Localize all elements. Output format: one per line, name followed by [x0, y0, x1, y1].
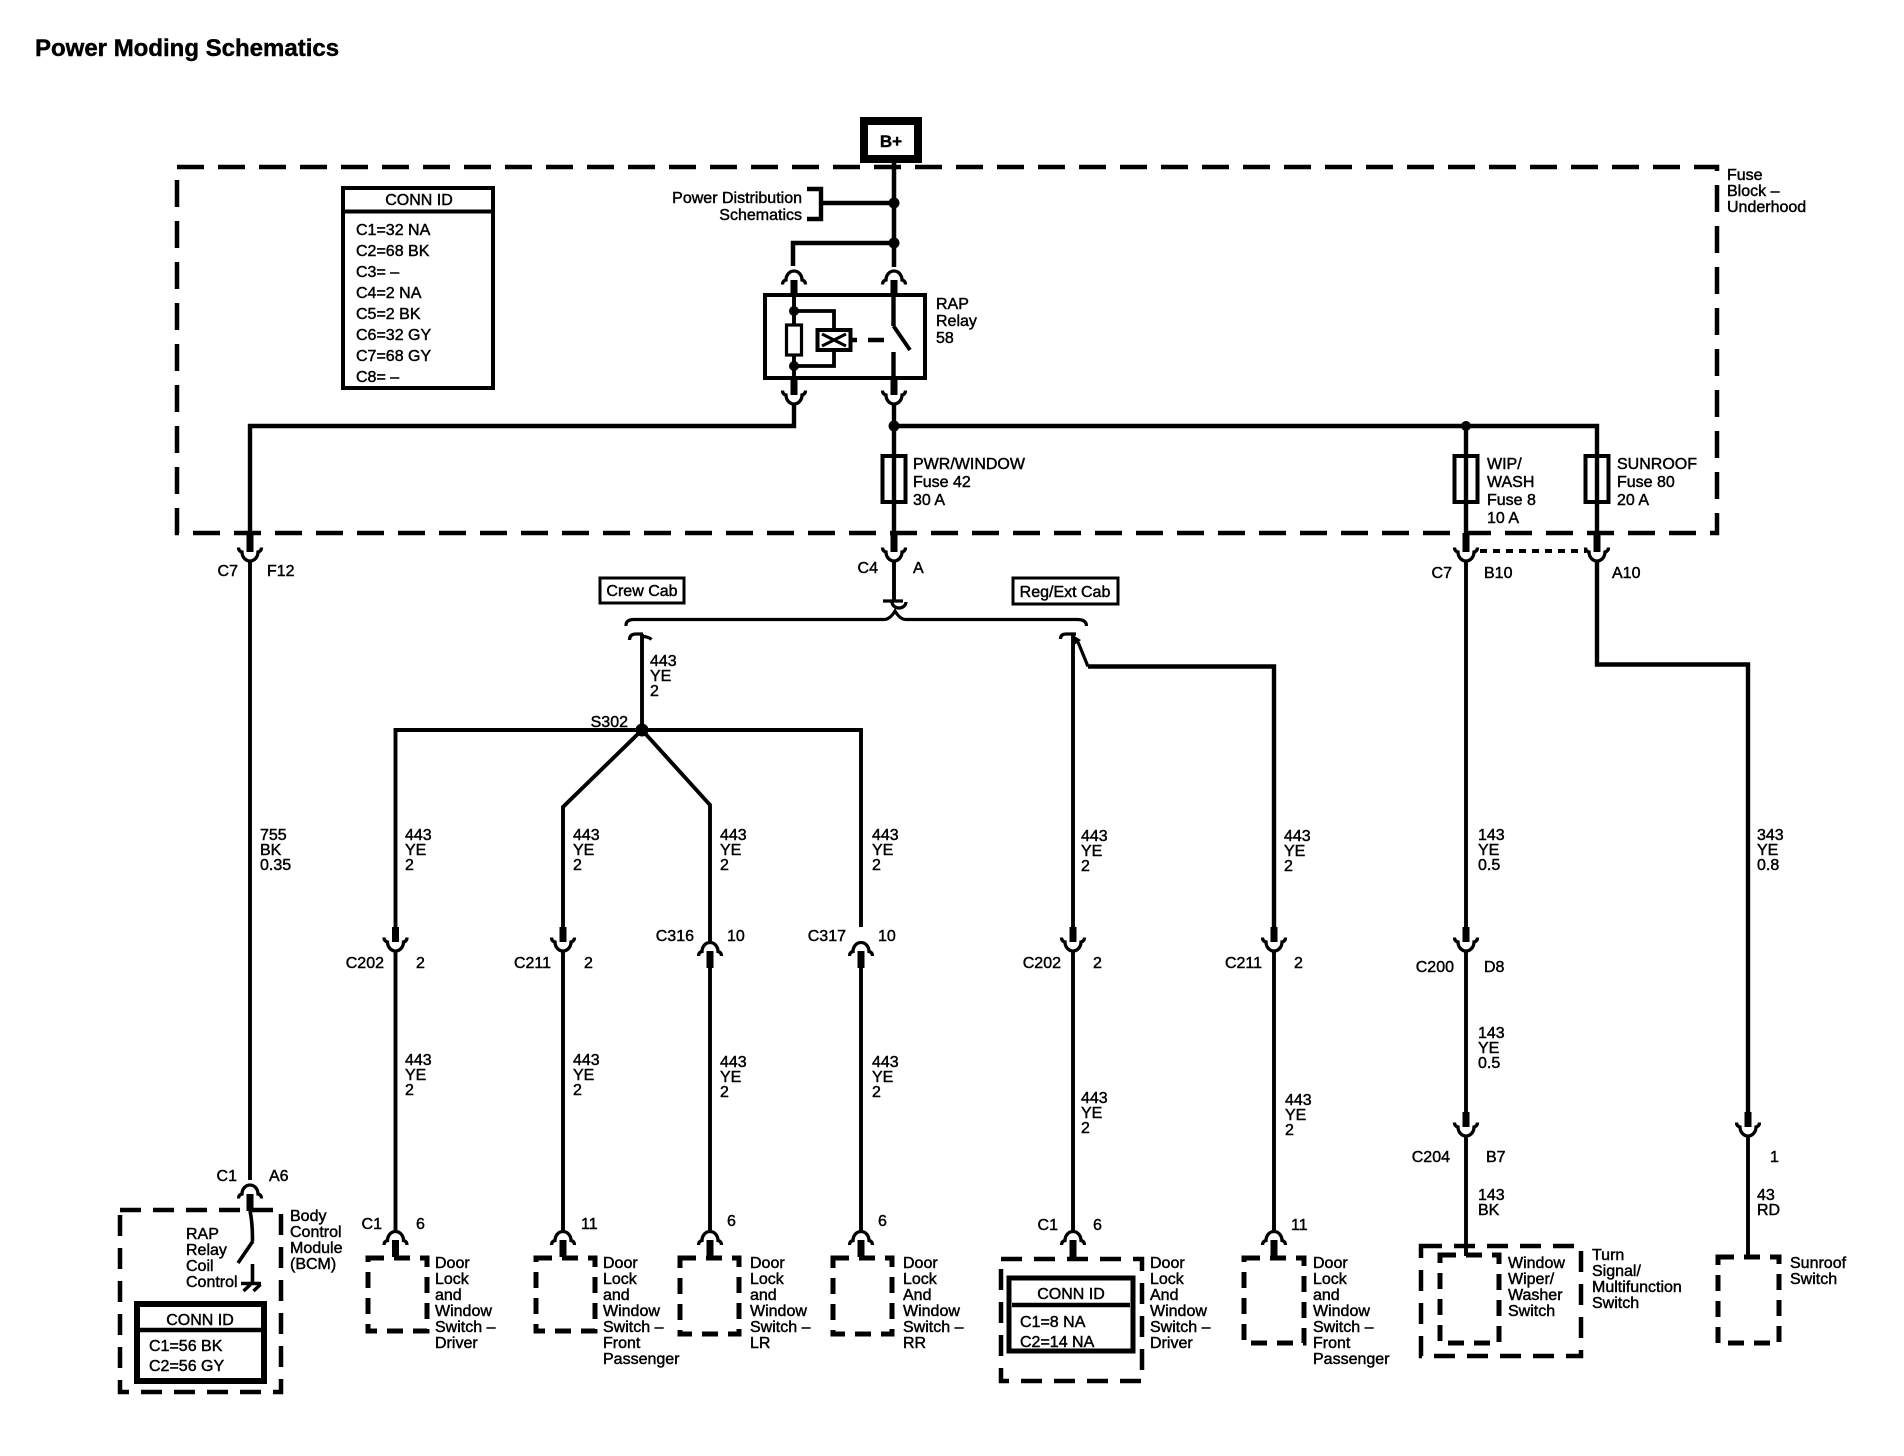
connector C317 — [808, 928, 896, 968]
RAP relay label — [936, 296, 977, 347]
svg-text:C316: C316 — [656, 928, 694, 945]
svg-text:2: 2 — [650, 683, 659, 700]
svg-text:C5=2 BK: C5=2 BK — [356, 306, 421, 323]
door lock window switch front passenger label — [603, 1255, 680, 1368]
svg-text:Window: Window — [1313, 1303, 1370, 1320]
RAP relay coil control driver — [238, 1211, 261, 1291]
connector C316 — [656, 928, 745, 968]
connector C7 B10 — [1432, 533, 1513, 582]
svg-text:2: 2 — [872, 1084, 881, 1101]
connector C211 reg — [1225, 927, 1303, 972]
svg-text:0.35: 0.35 — [260, 857, 291, 874]
svg-text:WASH: WASH — [1487, 474, 1534, 491]
svg-text:2: 2 — [584, 955, 593, 972]
RAP relay box — [765, 295, 925, 378]
svg-text:2: 2 — [573, 1082, 582, 1099]
svg-text:6: 6 — [1093, 1217, 1102, 1234]
door lock window switch driver label — [435, 1255, 496, 1352]
svg-text:Washer: Washer — [1508, 1287, 1563, 1304]
svg-text:(BCM): (BCM) — [290, 1256, 336, 1273]
junction node — [889, 198, 900, 209]
svg-text:Switch: Switch — [1508, 1303, 1555, 1320]
fuse block underhood dashed box — [177, 167, 1717, 533]
svg-text:PWR/WINDOW: PWR/WINDOW — [913, 456, 1026, 473]
svg-text:2: 2 — [1284, 858, 1293, 875]
svg-text:C1=32 NA: C1=32 NA — [356, 222, 431, 239]
svg-text:0.5: 0.5 — [1478, 1055, 1500, 1072]
svg-text:C4=2 NA: C4=2 NA — [356, 285, 422, 302]
sunroof switch box — [1718, 1257, 1779, 1343]
svg-text:C7=68 GY: C7=68 GY — [356, 348, 431, 365]
wire label 443 YE 2 b3 — [720, 827, 747, 874]
svg-text:Front: Front — [1313, 1335, 1351, 1352]
connector C1 A6 — [217, 1168, 289, 1211]
svg-text:RD: RD — [1757, 1202, 1780, 1219]
svg-text:C2=68 BK: C2=68 BK — [356, 243, 430, 260]
wire bracket to main — [821, 201, 894, 206]
body control module dashed box — [120, 1210, 281, 1392]
svg-text:A10: A10 — [1612, 565, 1641, 582]
svg-text:Coil: Coil — [186, 1258, 214, 1275]
svg-text:Switch –: Switch – — [750, 1319, 811, 1336]
svg-text:Window: Window — [435, 1303, 492, 1320]
svg-text:Window: Window — [1150, 1303, 1207, 1320]
wire label 443 YE 2 b2 — [573, 827, 600, 874]
svg-text:Body: Body — [290, 1208, 326, 1225]
svg-text:CONN ID: CONN ID — [166, 1312, 234, 1329]
wire to relay coil branch — [793, 243, 894, 266]
BCM CONN ID table — [137, 1304, 264, 1381]
turn signal multifunction switch label — [1592, 1247, 1682, 1312]
svg-text:10: 10 — [878, 928, 896, 945]
relay coil wire — [792, 295, 796, 325]
wire label 443 YE 2 c4 — [872, 1054, 899, 1101]
door lock window switch reg driver label — [1150, 1255, 1211, 1352]
connector C1 6 reg driver — [1038, 1217, 1102, 1257]
svg-text:Signal/: Signal/ — [1592, 1263, 1641, 1280]
sunroof switch label — [1790, 1255, 1847, 1288]
wire S302 to C316 branch — [642, 730, 710, 941]
door lock window switch LR label — [750, 1255, 811, 1352]
Reg/Ext Cab label — [1013, 578, 1118, 604]
relay RAP connector pin top right — [883, 271, 906, 296]
svg-text:C6=32 GY: C6=32 GY — [356, 327, 431, 344]
svg-text:C202: C202 — [1023, 955, 1061, 972]
connector 11 crew fp — [552, 1216, 598, 1257]
svg-text:2: 2 — [405, 1082, 414, 1099]
svg-text:Driver: Driver — [435, 1335, 478, 1352]
svg-text:C1=8 NA: C1=8 NA — [1020, 1314, 1086, 1331]
svg-text:Window: Window — [603, 1303, 660, 1320]
svg-text:WIP/: WIP/ — [1487, 456, 1522, 473]
wire C204 down — [1464, 1135, 1468, 1256]
wire label 143 YE 0.5 top — [1478, 827, 1505, 874]
svg-text:Fuse 42: Fuse 42 — [913, 474, 971, 491]
door lock window switch LR box — [680, 1258, 739, 1334]
wire S302 to C202 branch — [396, 730, 643, 927]
svg-text:C1: C1 — [362, 1216, 383, 1233]
svg-text:Fuse 80: Fuse 80 — [1617, 474, 1675, 491]
svg-text:2: 2 — [720, 857, 729, 874]
svg-text:2: 2 — [1294, 955, 1303, 972]
wire label 443 YE 2 b4 — [872, 827, 899, 874]
connector C202 crew — [346, 927, 425, 972]
wire B10 down — [1464, 561, 1468, 927]
PWR/WINDOW label — [913, 456, 1026, 509]
connector 1 sunroof — [1737, 1112, 1780, 1166]
svg-text:And: And — [903, 1287, 931, 1304]
svg-text:2: 2 — [416, 955, 425, 972]
connector 11 reg fp — [1263, 1217, 1308, 1257]
svg-text:Window: Window — [1508, 1255, 1565, 1272]
relay switch — [894, 295, 911, 378]
svg-text:10: 10 — [727, 928, 745, 945]
svg-text:A6: A6 — [269, 1168, 289, 1185]
svg-text:and: and — [750, 1287, 777, 1304]
svg-text:Power Moding Schematics: Power Moding Schematics — [35, 35, 339, 62]
svg-text:C8= –: C8= – — [356, 369, 399, 386]
door lock window switch driver box — [368, 1258, 427, 1331]
svg-text:Multifunction: Multifunction — [1592, 1279, 1682, 1296]
svg-text:Passenger: Passenger — [603, 1351, 680, 1368]
wire C202 reg down — [1071, 950, 1075, 1230]
svg-text:BK: BK — [1478, 1202, 1500, 1219]
svg-text:C1: C1 — [1038, 1217, 1059, 1234]
svg-text:Sunroof: Sunroof — [1790, 1255, 1847, 1272]
solid state coil element — [818, 330, 851, 350]
svg-text:Door: Door — [1150, 1255, 1185, 1272]
door lock window switch RR box — [833, 1258, 892, 1334]
svg-text:Door: Door — [1313, 1255, 1348, 1272]
svg-text:B10: B10 — [1484, 565, 1513, 582]
connector 6 crew lr — [699, 1213, 737, 1257]
svg-text:and: and — [435, 1287, 462, 1304]
svg-text:0.5: 0.5 — [1478, 857, 1500, 874]
svg-text:C317: C317 — [808, 928, 846, 945]
svg-text:and: and — [603, 1287, 630, 1304]
svg-text:A: A — [913, 560, 924, 577]
svg-text:Wiper/: Wiper/ — [1508, 1271, 1555, 1288]
wire label 143 YE 0.5 lower — [1478, 1025, 1505, 1072]
wire label 443 YE 2 r2 — [1284, 828, 1311, 875]
svg-text:Control: Control — [186, 1274, 238, 1291]
wire label 443 YE 2 crew feed — [650, 653, 677, 700]
Crew Cab label — [600, 578, 684, 603]
connector C1 6 crew driver — [362, 1216, 425, 1257]
window wiper washer switch box — [1440, 1255, 1499, 1343]
wire label 43 RD — [1757, 1187, 1780, 1219]
svg-text:C200: C200 — [1416, 959, 1454, 976]
door lock window switch reg fp box — [1244, 1258, 1304, 1343]
svg-text:B7: B7 — [1486, 1149, 1506, 1166]
crew cab branch hook — [630, 634, 652, 640]
svg-text:RAP: RAP — [186, 1226, 219, 1243]
fuse block label — [1727, 167, 1806, 216]
junction node — [889, 238, 900, 249]
connector 6 crew rr — [850, 1213, 888, 1257]
svg-text:C1=56 BK: C1=56 BK — [149, 1338, 223, 1355]
svg-text:6: 6 — [878, 1213, 887, 1230]
svg-text:Lock: Lock — [903, 1271, 938, 1288]
connector C202 reg — [1023, 927, 1102, 972]
svg-text:C211: C211 — [514, 955, 551, 972]
svg-text:RAP: RAP — [936, 296, 969, 313]
wire C316 down — [708, 968, 712, 1230]
svg-text:RR: RR — [903, 1335, 926, 1352]
door lock window switch reg fp label — [1313, 1255, 1390, 1368]
wire label 443 YE 2 c3 — [720, 1054, 747, 1101]
svg-text:Crew Cab: Crew Cab — [606, 583, 677, 600]
svg-text:C2=14 NA: C2=14 NA — [1020, 1334, 1095, 1351]
svg-text:30 A: 30 A — [913, 492, 945, 509]
svg-text:20 A: 20 A — [1617, 492, 1649, 509]
relay coil resistor — [787, 325, 802, 355]
wire C211 down — [561, 950, 565, 1230]
svg-text:CONN ID: CONN ID — [385, 192, 453, 209]
connector C211 crew — [514, 927, 593, 972]
svg-text:Reg/Ext Cab: Reg/Ext Cab — [1020, 584, 1111, 601]
wire label 443 YE 2 b1 — [405, 827, 432, 874]
junction node coil bottom — [789, 361, 799, 371]
wire relay left to F12 — [250, 403, 794, 533]
svg-text:2: 2 — [1285, 1122, 1294, 1139]
svg-text:Passenger: Passenger — [1313, 1351, 1390, 1368]
svg-text:Driver: Driver — [1150, 1335, 1193, 1352]
svg-text:C204: C204 — [1412, 1149, 1450, 1166]
svg-text:2: 2 — [1081, 1120, 1090, 1137]
wire label 143 BK — [1478, 1187, 1505, 1219]
svg-text:1: 1 — [1770, 1149, 1779, 1166]
Power Distribution Schematics reference — [672, 189, 821, 224]
svg-text:6: 6 — [727, 1213, 736, 1230]
branch arrow diagonal — [1071, 634, 1089, 667]
svg-text:Switch –: Switch – — [903, 1319, 964, 1336]
svg-text:Door: Door — [603, 1255, 638, 1272]
wire S302 to C317 branch — [642, 730, 861, 927]
svg-text:Underhood: Underhood — [1727, 199, 1806, 216]
svg-text:Lock: Lock — [435, 1271, 470, 1288]
svg-text:B+: B+ — [880, 132, 902, 151]
svg-text:Door: Door — [903, 1255, 938, 1272]
wire label 443 YE 2 c2 — [573, 1052, 600, 1099]
svg-text:2: 2 — [720, 1084, 729, 1101]
connector C204 B7 — [1412, 1112, 1506, 1166]
window wiper washer switch label — [1508, 1255, 1565, 1320]
svg-text:Window: Window — [903, 1303, 960, 1320]
svg-text:C202: C202 — [346, 955, 384, 972]
junction node coil top — [789, 306, 799, 316]
svg-text:Lock: Lock — [1150, 1271, 1185, 1288]
wire wip fuse drop — [1464, 426, 1468, 456]
wire C200 down — [1464, 950, 1468, 1112]
svg-text:Fuse 8: Fuse 8 — [1487, 492, 1536, 509]
svg-text:LR: LR — [750, 1335, 770, 1352]
svg-text:11: 11 — [581, 1216, 598, 1233]
svg-text:Lock: Lock — [750, 1271, 785, 1288]
svg-text:10 A: 10 A — [1487, 510, 1519, 527]
connector C7 F12 — [218, 533, 295, 580]
svg-text:Relay: Relay — [936, 313, 977, 330]
relay coil wire bottom — [792, 355, 796, 378]
CONN ID table (fuse block) — [343, 188, 493, 388]
wire label 343 YE 0.8 — [1757, 827, 1784, 874]
SUNROOF fuse 80 — [1586, 456, 1609, 533]
svg-text:Switch: Switch — [1592, 1295, 1639, 1312]
junction node bus — [889, 421, 900, 432]
svg-text:SUNROOF: SUNROOF — [1617, 456, 1697, 473]
split male half symbol — [883, 601, 906, 608]
svg-text:2: 2 — [573, 857, 582, 874]
relay pin bottom left — [783, 378, 806, 404]
svg-text:and: and — [1313, 1287, 1340, 1304]
svg-text:Lock: Lock — [1313, 1271, 1348, 1288]
wire C202 down — [394, 950, 398, 1230]
wire label 755 BK 0.35 — [260, 827, 291, 874]
wire label 443 YE 2 r3 — [1081, 1090, 1108, 1137]
relay pin bottom right — [883, 378, 906, 404]
svg-text:And: And — [1150, 1287, 1178, 1304]
connector C200 D8 — [1416, 927, 1505, 976]
PWR/WINDOW fuse 42 — [883, 456, 906, 533]
connector A10 — [1586, 533, 1641, 582]
svg-text:Window: Window — [750, 1303, 807, 1320]
door lock window switch reg driver box — [1001, 1259, 1142, 1381]
svg-text:58: 58 — [936, 330, 954, 347]
svg-text:0.8: 0.8 — [1757, 857, 1779, 874]
svg-text:2: 2 — [1093, 955, 1102, 972]
wire C317 down — [859, 968, 863, 1230]
wire label 443 YE 2 r4 — [1285, 1092, 1312, 1139]
relay RAP connector pin top left — [783, 271, 806, 296]
wire C4 to split — [892, 561, 896, 600]
coil to switch dashed link — [850, 338, 884, 343]
svg-text:D8: D8 — [1484, 959, 1505, 976]
svg-text:C1: C1 — [217, 1168, 238, 1185]
svg-text:Switch –: Switch – — [603, 1319, 664, 1336]
svg-text:CONN ID: CONN ID — [1037, 1286, 1105, 1303]
wire sunroof down — [1746, 1135, 1750, 1257]
wire to C211 reg — [1088, 667, 1274, 928]
wire B+ down to relay — [892, 160, 897, 267]
BCM label — [290, 1208, 343, 1273]
B+ terminal — [864, 121, 918, 159]
svg-text:C211: C211 — [1225, 955, 1262, 972]
svg-text:Relay: Relay — [186, 1242, 227, 1259]
wire C211 reg down — [1272, 950, 1276, 1230]
svg-text:Door: Door — [435, 1255, 470, 1272]
reg/ext branch hook — [1061, 634, 1077, 639]
wire S302 to C211 branch — [563, 730, 642, 927]
svg-text:6: 6 — [416, 1216, 425, 1233]
svg-text:C7: C7 — [1432, 565, 1453, 582]
SUNROOF label — [1617, 456, 1697, 509]
svg-text:Switch: Switch — [1790, 1271, 1837, 1288]
wire label 443 YE 2 c1 — [405, 1052, 432, 1099]
wire hook to C202 reg — [1071, 635, 1075, 927]
svg-text:Door: Door — [750, 1255, 785, 1272]
svg-text:C4: C4 — [858, 560, 879, 577]
reg driver CONN ID table — [1009, 1278, 1133, 1351]
dotted link B10 A10 — [1480, 549, 1586, 553]
door lock window switch front passenger box — [536, 1258, 595, 1331]
svg-text:C2=56 GY: C2=56 GY — [149, 1358, 224, 1375]
junction node wip — [1461, 421, 1471, 431]
door lock window switch RR label — [903, 1255, 964, 1352]
svg-text:2: 2 — [1081, 858, 1090, 875]
svg-text:Switch –: Switch – — [435, 1319, 496, 1336]
svg-text:Module: Module — [290, 1240, 343, 1257]
svg-text:2: 2 — [405, 857, 414, 874]
svg-text:Fuse: Fuse — [1727, 167, 1763, 184]
WIP/WASH label — [1487, 456, 1536, 527]
wire A10 to sunroof — [1597, 561, 1748, 1112]
wire F12 to BCM — [248, 561, 252, 1180]
wire label 443 YE 2 r1 — [1081, 828, 1108, 875]
svg-text:Front: Front — [603, 1335, 641, 1352]
svg-text:C7: C7 — [218, 563, 239, 580]
svg-text:Schematics: Schematics — [719, 207, 802, 224]
turn signal multifunction switch box — [1421, 1246, 1581, 1356]
connector C4 A — [858, 533, 924, 577]
RAP relay coil control label — [186, 1226, 238, 1291]
svg-text:Switch –: Switch – — [1313, 1319, 1374, 1336]
svg-text:Turn: Turn — [1592, 1247, 1624, 1264]
svg-text:Switch –: Switch – — [1150, 1319, 1211, 1336]
svg-text:2: 2 — [872, 857, 881, 874]
svg-text:Lock: Lock — [603, 1271, 638, 1288]
svg-text:C3= –: C3= – — [356, 264, 399, 281]
svg-text:F12: F12 — [267, 563, 295, 580]
coil bypass loop — [796, 311, 834, 366]
splice S302 — [591, 714, 649, 737]
svg-text:Block –: Block – — [1727, 183, 1780, 200]
svg-text:Control: Control — [290, 1224, 342, 1241]
wire brace to S302 — [640, 634, 644, 730]
wire relay right bus — [892, 403, 896, 456]
svg-text:Power Distribution: Power Distribution — [672, 190, 802, 207]
WIP/WASH fuse 8 — [1455, 456, 1478, 533]
bus to right fuses — [894, 426, 1597, 456]
svg-text:11: 11 — [1291, 1217, 1308, 1234]
harness brace — [626, 611, 1087, 626]
